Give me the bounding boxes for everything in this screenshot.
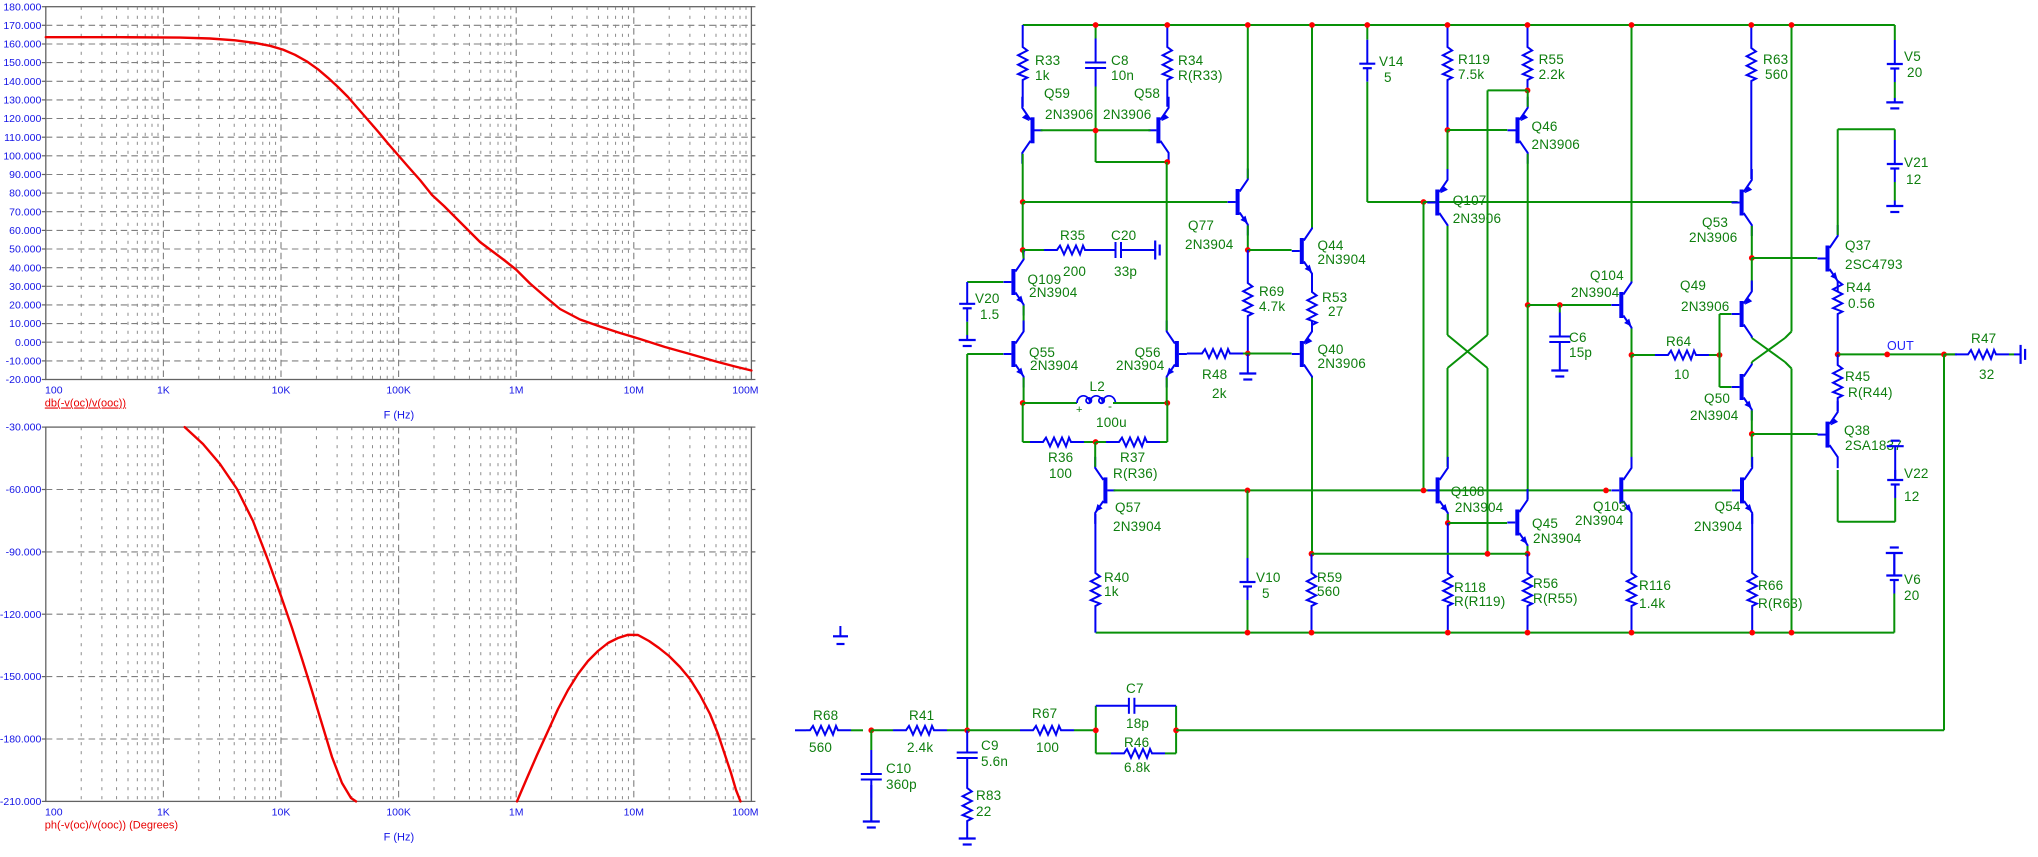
node R64 left [1629, 352, 1635, 358]
svg-text:1M: 1M [509, 385, 524, 397]
node Q59 collector to Q77 base [1020, 199, 1026, 205]
svg-text:10K: 10K [272, 385, 291, 397]
svg-text:Q77: Q77 [1188, 218, 1214, 233]
resistor R40 [1091, 514, 1100, 633]
svg-text:1.4k: 1.4k [1639, 596, 1665, 611]
wire top supply rail +20V [1023, 24, 1895, 26]
transistor Q50 [1740, 374, 1744, 400]
svg-text:R47: R47 [1971, 331, 1996, 346]
svg-text:R119: R119 [1458, 52, 1490, 67]
svg-text:100M: 100M [732, 807, 758, 819]
svg-text:Q54: Q54 [1715, 499, 1741, 514]
svg-text:-150.000: -150.000 [0, 671, 41, 683]
svg-text:1k: 1k [1035, 68, 1050, 83]
node X1 bottom wire [1485, 551, 1491, 557]
node R55/Q46 emitter [1525, 88, 1531, 94]
svg-text:Q46: Q46 [1532, 119, 1558, 134]
svg-text:R56: R56 [1533, 576, 1558, 591]
capacitor C8 [1095, 25, 1097, 39]
node Q44 rail [1309, 22, 1315, 28]
ground R83 [966, 833, 968, 839]
transistor Q45 [1515, 510, 1519, 536]
wire Q59-Q58 base bus [1041, 129, 1151, 131]
svg-text:27: 27 [1328, 304, 1343, 319]
wire to Q38 base [1752, 433, 1818, 435]
svg-text:R40: R40 [1104, 570, 1129, 585]
node Q108 emitter / Q45 base [1445, 520, 1451, 526]
svg-text:Q38: Q38 [1844, 423, 1870, 438]
svg-text:-210.000: -210.000 [0, 796, 41, 808]
wire Q56 emitter [1166, 378, 1168, 404]
svg-text:R(R63): R(R63) [1758, 596, 1803, 611]
svg-text:40.000: 40.000 [9, 262, 41, 274]
wire to Q44 base [1248, 249, 1292, 251]
wire Q53 collector down [1751, 226, 1753, 258]
svg-text:100M: 100M [732, 385, 758, 397]
svg-text:V21: V21 [1904, 155, 1929, 170]
wire Q50 base jog [1720, 386, 1732, 388]
svg-text:170.000: 170.000 [3, 20, 41, 32]
ground V21 [1894, 201, 1896, 207]
wire Q40 collector down [1311, 378, 1313, 554]
resistor R59 [1307, 554, 1316, 633]
wire C7/R46 box [1095, 706, 1097, 754]
capacitor C10 [870, 730, 872, 750]
wire Q57 collector up [1094, 442, 1096, 467]
node Q77 collector rail [1245, 22, 1251, 28]
wire Q53col node to Q49 emitter [1751, 258, 1753, 291]
svg-text:Q107: Q107 [1453, 193, 1487, 208]
node R48/R69/ground [1245, 351, 1251, 357]
svg-text:100K: 100K [386, 807, 411, 819]
inductor L2 [1023, 402, 1077, 404]
svg-text:10.000: 10.000 [9, 318, 41, 330]
wire X2 bottom column to bottom rail [1791, 369, 1793, 633]
svg-text:-20.000: -20.000 [6, 374, 42, 386]
svg-text:R66: R66 [1758, 578, 1783, 593]
wire X2 top column to rail [1791, 25, 1793, 332]
node R64 right / Q49 Q50 bases [1717, 352, 1723, 358]
node V14 rail [1364, 22, 1370, 28]
svg-text:Q108: Q108 [1451, 484, 1485, 499]
capacitor C7 [1096, 705, 1129, 707]
resistor R66 [1748, 514, 1757, 633]
wire Q50 collector to X2 [1751, 362, 1753, 364]
node X2 rail [1789, 22, 1795, 28]
svg-text:1K: 1K [157, 385, 170, 397]
wire Q107/Q108 base link [1423, 202, 1425, 490]
svg-text:ph(-v(oc)/v(ooc)) (Degrees): ph(-v(oc)/v(ooc)) (Degrees) [45, 820, 178, 832]
svg-text:L2: L2 [1090, 379, 1105, 394]
resistor R45 [1833, 354, 1842, 411]
resistor R48 [1243, 353, 1248, 355]
wire to Q40 base [1248, 353, 1292, 355]
svg-text:Q37: Q37 [1845, 238, 1871, 253]
wire Q46 collector down [1527, 154, 1529, 305]
svg-text:560: 560 [809, 740, 832, 755]
svg-text:Q49: Q49 [1680, 278, 1706, 293]
svg-text:-90.000: -90.000 [6, 547, 42, 559]
transistor Q53 [1740, 190, 1744, 216]
svg-text:V22: V22 [1904, 466, 1929, 481]
transistor Q55 [1011, 341, 1015, 367]
svg-text:-10.000: -10.000 [6, 356, 42, 368]
svg-text:R59: R59 [1317, 570, 1342, 585]
ground V22 top [1894, 446, 1896, 480]
node Q45 emitter [1525, 551, 1531, 557]
resistor R47 [1944, 353, 1955, 355]
svg-text:90.000: 90.000 [9, 169, 41, 181]
capacitor C6 [1559, 305, 1561, 313]
transistor Q104 [1619, 292, 1623, 318]
transistor Q38 [1826, 422, 1830, 448]
node C6 tap [1557, 302, 1563, 308]
svg-text:12: 12 [1906, 172, 1921, 187]
node R116 rail [1629, 630, 1635, 636]
voltage source V10 [1247, 490, 1249, 558]
node OUT label [1884, 352, 1890, 358]
svg-text:7.5k: 7.5k [1458, 67, 1484, 82]
resistor R41 [871, 729, 893, 731]
wire Q108 emitter down [1447, 514, 1449, 523]
svg-text:R(R36): R(R36) [1113, 466, 1158, 481]
transistor Q109 [1011, 269, 1015, 295]
capacitor C20 [1099, 249, 1116, 251]
svg-text:100: 100 [45, 807, 63, 819]
wire Q59 collector down [1022, 154, 1024, 202]
wire X1 to Q108 collector [1447, 368, 1449, 467]
transistor Q40 [1300, 341, 1304, 367]
svg-text:5: 5 [1262, 586, 1270, 601]
node R66 rail [1749, 630, 1755, 636]
svg-text:560: 560 [1765, 67, 1788, 82]
transistor Q49 [1740, 301, 1744, 327]
resistor R46 [1096, 752, 1111, 754]
svg-text:22: 22 [976, 804, 991, 819]
svg-text:C6: C6 [1569, 330, 1587, 345]
ground V5 [1894, 98, 1896, 102]
svg-text:R45: R45 [1845, 369, 1870, 384]
svg-text:2N3904: 2N3904 [1690, 408, 1739, 423]
svg-text:Q57: Q57 [1115, 500, 1141, 515]
wire to Q45 base [1448, 522, 1507, 524]
wire to Q37 base [1752, 257, 1818, 259]
svg-text:150.000: 150.000 [3, 57, 41, 69]
svg-text:2k: 2k [1212, 386, 1227, 401]
svg-text:2N3906: 2N3906 [1045, 107, 1094, 122]
wire V14 to Q107 base [1367, 201, 1427, 203]
svg-text:R53: R53 [1322, 290, 1347, 305]
wire to Q77 base [1023, 201, 1228, 203]
svg-text:15p: 15p [1569, 345, 1592, 360]
wire L2 loop right [1166, 403, 1168, 442]
svg-text:2N3904: 2N3904 [1575, 513, 1624, 528]
wire bottom supply rail -20V [1096, 632, 1895, 634]
resistor R44 [1833, 281, 1842, 354]
svg-text:2N3906: 2N3906 [1103, 107, 1152, 122]
svg-text:R44: R44 [1846, 280, 1872, 295]
node base mirror [1093, 128, 1099, 134]
svg-text:2N3906: 2N3906 [1453, 211, 1502, 226]
svg-text:5.6n: 5.6n [981, 754, 1008, 769]
transistor Q56 [1175, 341, 1179, 367]
wire Q50em node to Q54 collector [1751, 434, 1753, 467]
svg-text:2N3904: 2N3904 [1318, 252, 1367, 267]
wire Q45 emitter down [1527, 546, 1529, 554]
svg-text:2N3904: 2N3904 [1455, 500, 1504, 515]
node box right [1173, 727, 1179, 733]
svg-text:C9: C9 [981, 738, 999, 753]
ground C20 right terminal [1147, 249, 1155, 251]
wire X1 to emitter wire [1487, 368, 1489, 554]
svg-text:R36: R36 [1048, 450, 1073, 465]
wire Q109 emitter to Q55 collector [1023, 306, 1025, 331]
svg-text:100: 100 [45, 385, 63, 397]
transistor Q37 [1826, 246, 1830, 272]
node R59 top [1309, 551, 1315, 557]
node X2 bottom rail [1789, 630, 1795, 636]
node feedback tap [1941, 352, 1947, 358]
svg-text:-120.000: -120.000 [0, 609, 41, 621]
wire feedback to OUT [1176, 729, 1944, 731]
svg-text:2N3906: 2N3906 [1681, 299, 1730, 314]
svg-text:12: 12 [1904, 489, 1919, 504]
svg-text:180.000: 180.000 [3, 1, 41, 13]
svg-text:Q103: Q103 [1593, 499, 1627, 514]
svg-text:30.000: 30.000 [9, 281, 41, 293]
resistor R34 [1163, 25, 1172, 107]
ground R48 node [1247, 354, 1249, 374]
node L2 right [1164, 400, 1170, 406]
svg-text:2N3906: 2N3906 [1532, 137, 1581, 152]
svg-text:10: 10 [1674, 367, 1689, 382]
node C9 / feedback [964, 727, 970, 733]
node V10 bottom rail [1245, 630, 1251, 636]
svg-text:80.000: 80.000 [9, 188, 41, 200]
resistor R64 [1632, 354, 1656, 356]
svg-text:F (Hz): F (Hz) [384, 832, 415, 844]
svg-text:4.7k: 4.7k [1259, 299, 1285, 314]
svg-text:160.000: 160.000 [3, 39, 41, 51]
svg-text:200: 200 [1063, 264, 1086, 279]
transistor Q103 [1619, 477, 1623, 503]
svg-text:Q40: Q40 [1318, 342, 1344, 357]
node R119 rail [1445, 22, 1451, 28]
node Q77 emitter / R69 [1245, 247, 1251, 253]
resistor R53 [1307, 275, 1316, 331]
svg-text:Q44: Q44 [1318, 238, 1344, 253]
wire input left [795, 729, 806, 731]
svg-text:R64: R64 [1666, 334, 1692, 349]
svg-text:2SC4793: 2SC4793 [1845, 257, 1903, 272]
ground V6 top [1893, 553, 1895, 576]
resistor R37 [1096, 441, 1106, 443]
transistor Q77 [1236, 189, 1240, 215]
svg-text:32: 32 [1979, 367, 1994, 382]
ground V20 [966, 335, 968, 340]
svg-text:10n: 10n [1111, 68, 1134, 83]
resistor R69 [1243, 250, 1252, 354]
svg-text:70.000: 70.000 [9, 206, 41, 218]
wire Q55 base feedback line [967, 353, 1003, 355]
svg-text:0.000: 0.000 [15, 337, 41, 349]
resistor R55 [1523, 25, 1532, 90]
transistor Q54 [1740, 477, 1744, 503]
resistor R67 [967, 729, 1020, 731]
voltage source V14 [1366, 25, 1368, 40]
svg-text:R83: R83 [976, 788, 1001, 803]
svg-text:C10: C10 [886, 761, 911, 776]
svg-text:R69: R69 [1259, 284, 1284, 299]
node R34 rail [1164, 22, 1170, 28]
svg-text:20: 20 [1907, 65, 1922, 80]
wire Q77 emitter [1247, 226, 1249, 251]
wire Q107 collector to crossover [1447, 226, 1449, 335]
wire jog R55 node to crossover [1488, 89, 1528, 91]
svg-text:6.8k: 6.8k [1124, 760, 1150, 775]
svg-text:Q45: Q45 [1532, 516, 1558, 531]
voltage source V22 [1894, 470, 1896, 480]
svg-text:C8: C8 [1111, 53, 1129, 68]
svg-text:V14: V14 [1379, 54, 1404, 69]
svg-text:V10: V10 [1256, 570, 1281, 585]
node OUT R44/R45 [1835, 352, 1841, 358]
svg-text:Q59: Q59 [1044, 86, 1070, 101]
svg-text:60.000: 60.000 [9, 225, 41, 237]
resistor R68 [851, 729, 863, 731]
svg-text:2N3904: 2N3904 [1029, 285, 1078, 300]
svg-text:120.000: 120.000 [3, 113, 41, 125]
svg-text:Q53: Q53 [1702, 215, 1728, 230]
wire Q46col node down to Q45 collector [1527, 305, 1529, 499]
wire Q55 emitter [1023, 378, 1025, 404]
node Q46 collector / Q104 base [1525, 302, 1531, 308]
svg-text:20: 20 [1904, 588, 1919, 603]
node Q107 base column [1421, 199, 1427, 205]
crossover X1 [1448, 335, 1488, 368]
wire to Q104 base [1528, 304, 1611, 306]
resistor R63 [1747, 25, 1756, 179]
resistor R35 [1023, 249, 1044, 251]
svg-text:R116: R116 [1639, 578, 1671, 593]
resistor R56 [1523, 554, 1532, 633]
wire Q58 diode connection [1095, 131, 1097, 163]
svg-text:18p: 18p [1126, 716, 1149, 731]
node R35/C20 tap [1020, 247, 1026, 253]
resistor R83 [963, 785, 972, 833]
transistor Q57 [1103, 477, 1107, 503]
svg-text:100: 100 [1036, 740, 1059, 755]
node C10 tap [868, 727, 874, 733]
svg-text:110.000: 110.000 [4, 132, 41, 144]
svg-text:1M: 1M [509, 807, 524, 819]
voltage source V6 [1893, 553, 1895, 576]
svg-text:33p: 33p [1114, 264, 1137, 279]
transistor Q59 [1031, 117, 1035, 143]
svg-text:R(R44): R(R44) [1848, 385, 1893, 400]
svg-text:R41: R41 [909, 708, 934, 723]
wire Q59col node down to R35 node [1022, 202, 1024, 250]
wire Q104 collector to rail [1631, 25, 1633, 282]
svg-text:100.000: 100.000 [3, 150, 41, 162]
svg-text:2N3904: 2N3904 [1694, 519, 1743, 534]
svg-text:2N3904: 2N3904 [1185, 237, 1234, 252]
svg-text:-180.000: -180.000 [0, 734, 41, 746]
svg-text:360p: 360p [886, 777, 917, 792]
ground C6 [1559, 365, 1561, 371]
ground R47 right [2014, 353, 2021, 355]
wire Q46 emitter up [1527, 90, 1529, 106]
svg-text:100: 100 [1049, 466, 1072, 481]
crossover X2 [1751, 337, 1753, 340]
wire Q109 collector [1022, 250, 1025, 259]
svg-text:OUT: OUT [1887, 339, 1914, 353]
svg-text:R67: R67 [1032, 706, 1057, 721]
svg-text:R118: R118 [1454, 580, 1486, 595]
svg-text:R34: R34 [1178, 53, 1204, 68]
svg-text:2N3906: 2N3906 [1318, 356, 1367, 371]
wire Q44 collector to rail [1311, 25, 1313, 228]
svg-text:R33: R33 [1035, 53, 1060, 68]
wire Q50 emitter down [1751, 411, 1753, 435]
node Q50 emitter / Q38 base [1749, 431, 1755, 437]
svg-text:R37: R37 [1120, 450, 1145, 465]
capacitor C9 [966, 730, 968, 752]
svg-text:2N3904: 2N3904 [1030, 358, 1079, 373]
node Q53 collector / Q37 base [1749, 255, 1755, 261]
svg-text:R68: R68 [813, 708, 838, 723]
svg-text:1.5: 1.5 [980, 307, 999, 322]
wire R119 node to Q107 emitter [1447, 130, 1449, 179]
svg-text:2N3904: 2N3904 [1113, 519, 1162, 534]
ground isolated [839, 626, 841, 636]
node C8 rail [1093, 22, 1099, 28]
svg-text:5: 5 [1384, 70, 1392, 85]
svg-text:100u: 100u [1096, 415, 1127, 430]
svg-text:-: - [1108, 399, 1112, 413]
node Q103 base [1603, 488, 1609, 494]
wire L2 loop left [1022, 403, 1024, 442]
svg-text:C20: C20 [1111, 228, 1136, 243]
svg-text:R(R119): R(R119) [1454, 594, 1505, 609]
node Q108 base [1421, 488, 1427, 494]
wire Q57 base bus to Q54 [1114, 489, 1611, 491]
svg-text:2N3906: 2N3906 [1689, 230, 1738, 245]
svg-text:Q58: Q58 [1134, 86, 1160, 101]
svg-text:R(R55): R(R55) [1533, 591, 1578, 606]
svg-text:R55: R55 [1539, 52, 1564, 67]
node R36/R37 junction [1093, 439, 1099, 445]
resistor R116 [1627, 514, 1636, 633]
wire Q49 base jog [1720, 313, 1732, 315]
node R119/Q46 base [1445, 127, 1451, 133]
svg-text:C7: C7 [1126, 681, 1144, 696]
node V10 top [1245, 488, 1251, 494]
svg-text:2.2k: 2.2k [1539, 67, 1565, 82]
svg-text:R63: R63 [1763, 52, 1788, 67]
svg-text:+: + [1076, 404, 1083, 416]
wire Q38 collector loop to V22 [1837, 470, 1839, 522]
svg-text:db(-v(oc)/v(ooc)): db(-v(oc)/v(ooc)) [45, 398, 126, 410]
svg-text:R(R33): R(R33) [1178, 68, 1223, 83]
transistor Q46 [1516, 117, 1520, 143]
svg-text:1K: 1K [157, 807, 170, 819]
node R55 rail [1525, 22, 1531, 28]
wire Q104 emitter down [1631, 329, 1633, 356]
node Q104 rail [1629, 22, 1635, 28]
svg-text:100K: 100K [386, 385, 411, 397]
node R63 rail [1748, 22, 1754, 28]
